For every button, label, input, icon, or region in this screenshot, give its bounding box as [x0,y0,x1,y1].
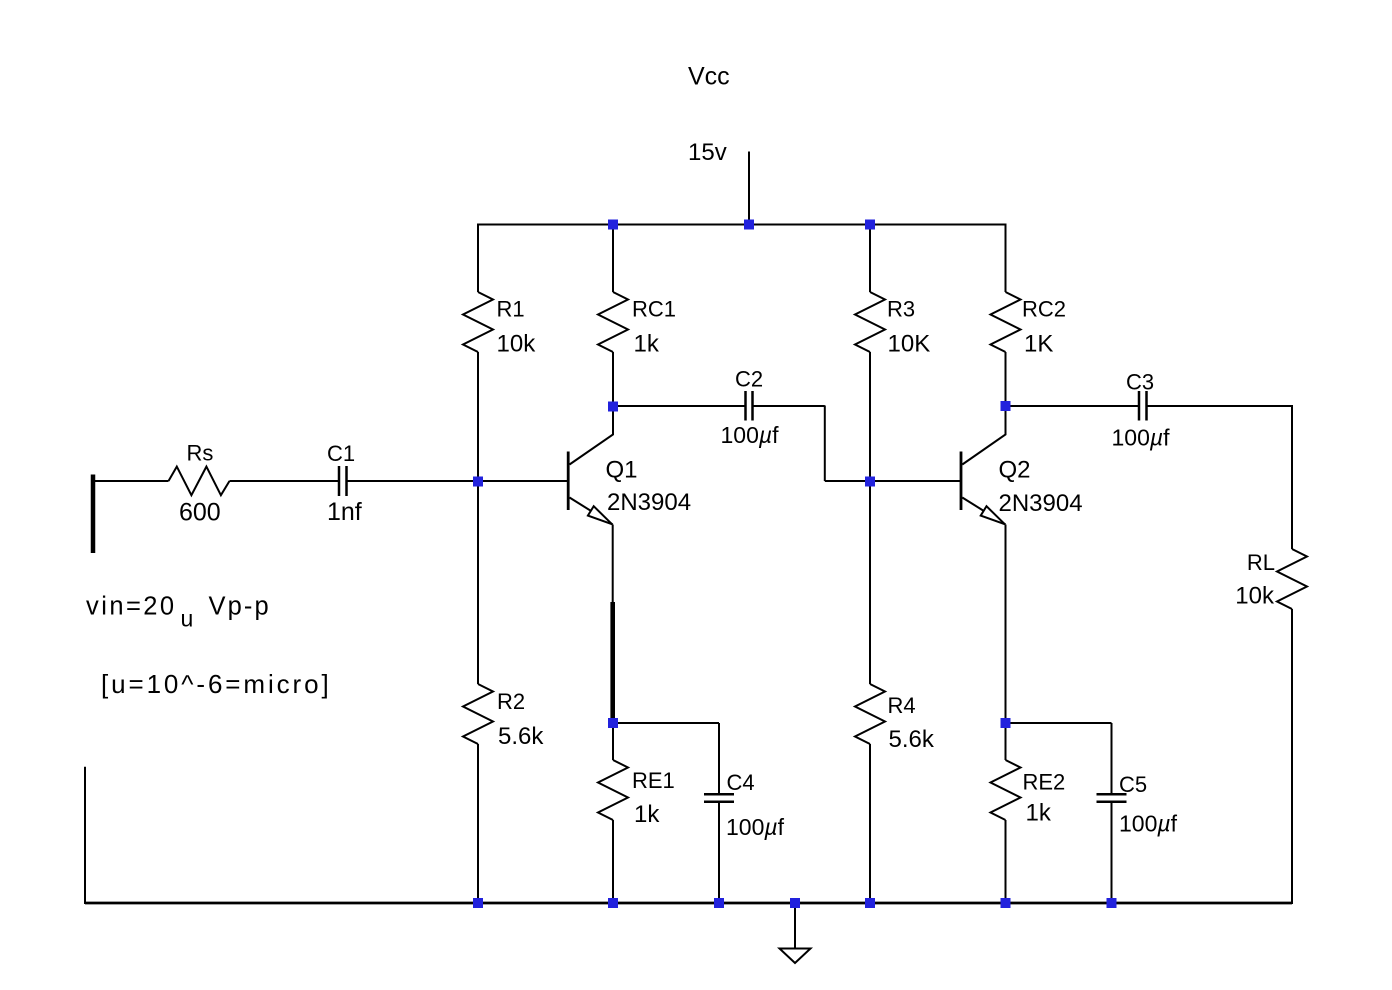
svg-text:vin=20: vin=20 [86,593,177,621]
wire C1 to base node [348,480,479,482]
resistor RE2 value label 1k [1026,800,1052,827]
svg-text:15v: 15v [688,139,727,166]
junction Q2 emitter node [1001,718,1011,728]
svg-text:5.6k: 5.6k [889,726,935,753]
wire C3 to RL [1148,405,1294,407]
capacitor C4 value label 100uf [726,814,785,840]
junction bottom rail R4 [865,898,875,908]
svg-text:10k: 10k [497,331,537,358]
svg-text:RL: RL [1247,550,1275,575]
wire Q1 emitter bold segment [610,602,615,721]
wire R1 to base node [477,352,479,481]
wire emitter node 2 to RE2 [1005,723,1007,760]
capacitor C5 [1097,772,1148,802]
wire C5 top [1111,723,1113,793]
svg-text:Rs: Rs [187,441,214,466]
svg-text:Vcc: Vcc [688,63,730,91]
wire base node to R2 [477,481,479,684]
junction Q1 base node [473,477,483,487]
resistor R3 value label 10K [888,331,931,358]
svg-text:100µf: 100µf [721,422,780,448]
svg-text:1k: 1k [634,331,660,358]
svg-text:1nf: 1nf [327,498,362,526]
wire C2 corner down [824,406,826,482]
junction Q2 collector node [1001,401,1011,411]
wire C4 bottom [718,803,720,903]
resistor RL value label 10k [1235,583,1275,610]
svg-text:C2: C2 [735,367,763,392]
wire rail to R3 [869,225,871,293]
resistor RC1 value label 1k [634,331,660,358]
svg-text:R2: R2 [497,689,525,714]
capacitor C4 [704,770,755,802]
wire rail to RC2 [1005,225,1007,293]
ground [780,949,811,964]
resistor RE1 value label 1k [634,801,660,828]
wire Q1 emitter [612,525,614,604]
junction bottom rail R2 [473,898,483,908]
svg-text:2N3904: 2N3904 [999,490,1083,517]
junction top rail RC1 [608,220,618,230]
wire RE2 bottom [1005,820,1007,903]
wire RC2 to collector node 2 [1005,352,1007,406]
svg-text:1k: 1k [1026,800,1052,827]
svg-text:600: 600 [179,499,221,527]
resistor RE1 [598,760,675,820]
resistor R2 value label 5.6k [498,723,544,750]
wire C2 right [754,405,825,407]
capacitor C1 value label 1nf [327,498,362,526]
svg-text:Vp-p: Vp-p [209,593,271,621]
svg-text:R3: R3 [887,297,915,322]
svg-text:RE1: RE1 [632,768,675,793]
junction top rail Vcc [744,220,754,230]
node vin annotation [86,593,271,632]
svg-text:R4: R4 [888,693,916,718]
resistor RC2 value label 1K [1024,331,1053,358]
Vcc value label 15v [688,139,727,166]
annotation micro note [101,669,332,699]
wire collector node 2 to C3 [1006,405,1139,407]
wire RL top [1291,406,1293,549]
junction bottom rail RE2 [1001,898,1011,908]
capacitor C1 [327,441,355,496]
svg-text:R1: R1 [497,297,525,322]
transistor Q2 part label 2N3904 [999,490,1083,517]
wire base node 2 to R4 [869,481,871,684]
svg-text:C4: C4 [727,770,755,795]
junction Q1 emitter node [608,718,618,728]
svg-text:RC1: RC1 [632,297,676,322]
svg-text:u: u [181,606,194,632]
capacitor C2 [735,367,763,421]
resistor RE2 [991,760,1066,820]
resistor RL [1247,549,1307,609]
svg-text:100µf: 100µf [1112,425,1171,451]
capacitor C2 value label 100uf [721,422,780,448]
wire emitter node 2 to C5 [1006,722,1112,724]
resistor R2 [463,684,525,744]
svg-text:RC2: RC2 [1022,297,1066,322]
wire vin to Rs [93,480,169,482]
wire RL bottom [1291,609,1293,904]
resistor RC2 [991,292,1067,352]
wire base node to Q1 [478,480,567,482]
svg-text:[u=10^-6=micro]: [u=10^-6=micro] [101,669,332,699]
resistor RC1 [598,292,676,352]
junction bottom rail C4 [714,898,724,908]
wire collector node to C2 [613,405,745,407]
wire R3 to base node 2 [869,352,871,481]
wire bold to emitter node [612,720,614,723]
svg-text:10K: 10K [888,331,931,358]
resistor R4 value label 5.6k [889,726,935,753]
wire Q2 emitter [1005,525,1007,724]
wire rail to R1 [477,225,479,293]
input terminal vin [91,475,96,554]
wire emitter node to RE1 [612,723,614,760]
wire emitter node to C4 [613,722,719,724]
svg-text:C3: C3 [1126,370,1154,395]
resistor R3 [855,292,915,352]
wire vin return [84,767,86,904]
wire R4 bottom [869,744,871,903]
wire corner to base node 2 [825,480,870,482]
svg-text:C1: C1 [327,441,355,466]
resistor Rs [169,441,230,496]
svg-text:100µf: 100µf [1119,811,1178,837]
junction top rail R3 [865,220,875,230]
svg-text:Q2: Q2 [999,457,1031,484]
wire bottom ground rail [85,902,1292,905]
transistor Q2 [961,406,1031,525]
svg-text:RE2: RE2 [1023,770,1066,795]
junction Q2 base node [865,477,875,487]
svg-text:C5: C5 [1119,772,1147,797]
transistor Q1 part label 2N3904 [607,489,691,516]
node Vcc label [688,63,730,91]
wire rail to RC1 [612,225,614,293]
wire base node 2 to Q2 [870,480,960,482]
svg-text:2N3904: 2N3904 [607,489,691,516]
svg-text:100µf: 100µf [726,814,785,840]
svg-text:10k: 10k [1235,583,1275,610]
svg-text:Q1: Q1 [606,457,638,484]
resistor R4 [855,684,916,744]
capacitor C3 [1126,370,1154,421]
wire RC1 to collector node [612,352,614,406]
junction bottom rail RE1 [608,898,618,908]
wire ground stub [794,903,796,949]
resistor R1 [463,292,525,352]
wire C5 bottom [1111,803,1113,903]
capacitor C3 value label 100uf [1112,425,1171,451]
junction bottom rail C5 [1107,898,1117,908]
svg-text:1k: 1k [634,801,660,828]
transistor Q1 [568,406,637,525]
wire Rs to C1 [230,480,339,482]
wire top supply rail [477,224,1007,226]
wire R2 bottom [477,744,479,903]
wire RE1 bottom [612,820,614,903]
wire Vcc stub [748,152,750,225]
resistor R1 value label 10k [497,331,537,358]
svg-text:5.6k: 5.6k [498,723,544,750]
capacitor C5 value label 100uf [1119,811,1178,837]
junction Q1 collector node [608,402,618,412]
resistor Rs value label 600 [179,499,221,527]
svg-text:1K: 1K [1024,331,1053,358]
junction bottom rail ground [790,898,800,908]
wire C4 top [718,723,720,793]
